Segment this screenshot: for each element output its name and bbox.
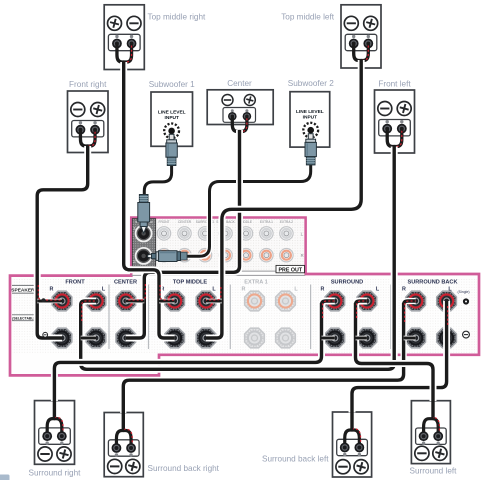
speaker Top middle left (341, 5, 381, 68)
polarity marks beside FRONT posts (41, 298, 45, 302)
svg-text:FRONT: FRONT (65, 279, 85, 285)
single-mode jack and minus mark (463, 298, 469, 304)
wire SURROUND BACK L terminals to Surround back left speaker (352, 301, 447, 413)
speaker Surround left (411, 401, 450, 464)
wire SURROUND BACK R terminals to Surround back right speaker (123, 301, 415, 413)
svg-text:R: R (301, 253, 304, 258)
pre-out RCA jacks (157, 227, 170, 240)
svg-text:CENTER: CENTER (178, 220, 192, 224)
section separators (108, 285, 110, 350)
svg-text:Front right: Front right (69, 80, 107, 89)
subwoofer 2 plug at PRE OUT jack 2 (147, 251, 187, 262)
speaker Surround back right (104, 413, 143, 477)
Subwoofer 1 box (151, 92, 193, 146)
wire Center speaker to CENTER terminals (126, 130, 240, 338)
svg-text:EXTRA 1: EXTRA 1 (260, 220, 273, 224)
speaker Front right (68, 91, 109, 153)
wire Top middle left speaker to TOP MIDDLE L terminals (206, 60, 361, 338)
speaker Surround back left (333, 412, 372, 477)
svg-text:EXTRA 1: EXTRA 1 (244, 279, 267, 285)
svg-text:R: R (321, 286, 325, 292)
page corner element (0, 475, 10, 480)
speaker Front left (375, 90, 415, 153)
wire Front left speaker to FRONT L terminals (81, 147, 395, 370)
wire subwoofer 2 RCA cable (186, 136, 311, 256)
SPEAKERS label box (12, 284, 37, 286)
svg-text:(Single): (Single) (458, 290, 470, 294)
wire SURROUND L terminals to Surround left speaker (356, 301, 434, 401)
svg-text:Center: Center (227, 79, 252, 88)
svg-text:LINE LEVEL: LINE LEVEL (158, 110, 186, 116)
speaker Top middle right (104, 5, 144, 70)
svg-text:INPUT: INPUT (165, 115, 179, 121)
wire Front right speaker to FRONT R terminals (37, 146, 87, 338)
svg-text:Surround left: Surround left (410, 467, 458, 476)
svg-text:INPUT: INPUT (303, 115, 317, 121)
svg-text:EXTRA 2: EXTRA 2 (280, 220, 293, 224)
svg-text:PRE OUT: PRE OUT (279, 268, 303, 274)
speaker Surround right (35, 401, 75, 465)
subwoofer 1 plug at speaker (166, 134, 177, 165)
svg-text:R: R (50, 286, 54, 292)
svg-text:Subwoofer 2: Subwoofer 2 (288, 79, 334, 88)
receiver speaker terminal panel (10, 218, 479, 376)
svg-text:R: R (242, 286, 246, 292)
wire subwoofer 1 RCA cable (144, 136, 171, 196)
svg-text:Surround right: Surround right (29, 469, 82, 478)
svg-text:TOP MIDDLE: TOP MIDDLE (173, 279, 208, 285)
subwoofer 2 plug at speaker (305, 134, 316, 165)
svg-text:LINE LEVEL: LINE LEVEL (296, 109, 324, 115)
wire SURROUND R terminals to Surround right speaker (54, 301, 334, 401)
binding posts (active) (52, 291, 72, 311)
binding posts EXTRA 1 (inactive) (245, 291, 265, 311)
PRE OUT panel (131, 218, 305, 272)
svg-text:R: R (402, 286, 406, 292)
svg-text:SURROUND BACK: SURROUND BACK (407, 279, 457, 285)
SUBWOOFER pre-out block with jacks 1 and 2 (132, 219, 155, 267)
svg-text:SURROUND: SURROUND (331, 279, 363, 285)
SELECTABLE label box (12, 314, 37, 316)
svg-text:FRONT: FRONT (159, 220, 170, 224)
svg-text:Subwoofer 1: Subwoofer 1 (149, 80, 195, 89)
svg-text:Top middle right: Top middle right (148, 13, 207, 22)
wire Top middle right speaker to TOP MIDDLE R terminals (124, 62, 175, 338)
svg-text:Top middle left: Top middle left (281, 13, 335, 22)
PRE OUT label (276, 265, 305, 272)
Subwoofer 2 box (290, 92, 330, 147)
svg-text:Surround back left: Surround back left (262, 455, 329, 464)
svg-text:(SELECTABLE): (SELECTABLE) (12, 316, 37, 320)
subwoofer 1 plug at PRE OUT jack 1 (138, 195, 150, 234)
svg-text:Surround back right: Surround back right (148, 464, 220, 473)
svg-text:Front left: Front left (378, 80, 411, 89)
svg-text:CENTER: CENTER (114, 279, 137, 285)
speaker Center (207, 90, 273, 125)
